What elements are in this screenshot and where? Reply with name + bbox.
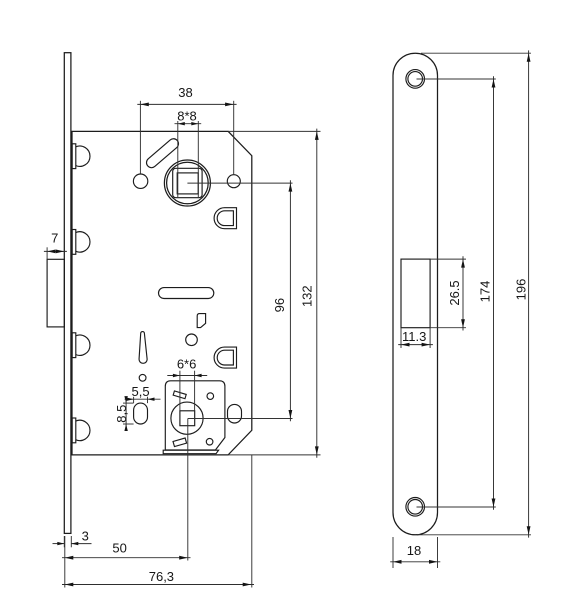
svg-text:3: 3 [82, 528, 89, 543]
svg-text:5,5: 5,5 [132, 384, 150, 399]
svg-text:96: 96 [272, 298, 287, 312]
svg-text:50: 50 [112, 540, 126, 555]
svg-text:8*8: 8*8 [177, 108, 197, 123]
svg-text:18: 18 [407, 543, 421, 558]
svg-text:196: 196 [514, 279, 529, 301]
svg-text:132: 132 [300, 285, 315, 307]
svg-text:38: 38 [178, 85, 192, 100]
svg-text:174: 174 [478, 281, 493, 303]
svg-text:11.3: 11.3 [402, 329, 426, 344]
svg-text:7: 7 [51, 230, 58, 245]
svg-text:8,5: 8,5 [114, 405, 129, 423]
svg-text:6*6: 6*6 [177, 356, 197, 371]
svg-text:76,3: 76,3 [149, 569, 174, 584]
svg-text:26.5: 26.5 [447, 280, 462, 305]
